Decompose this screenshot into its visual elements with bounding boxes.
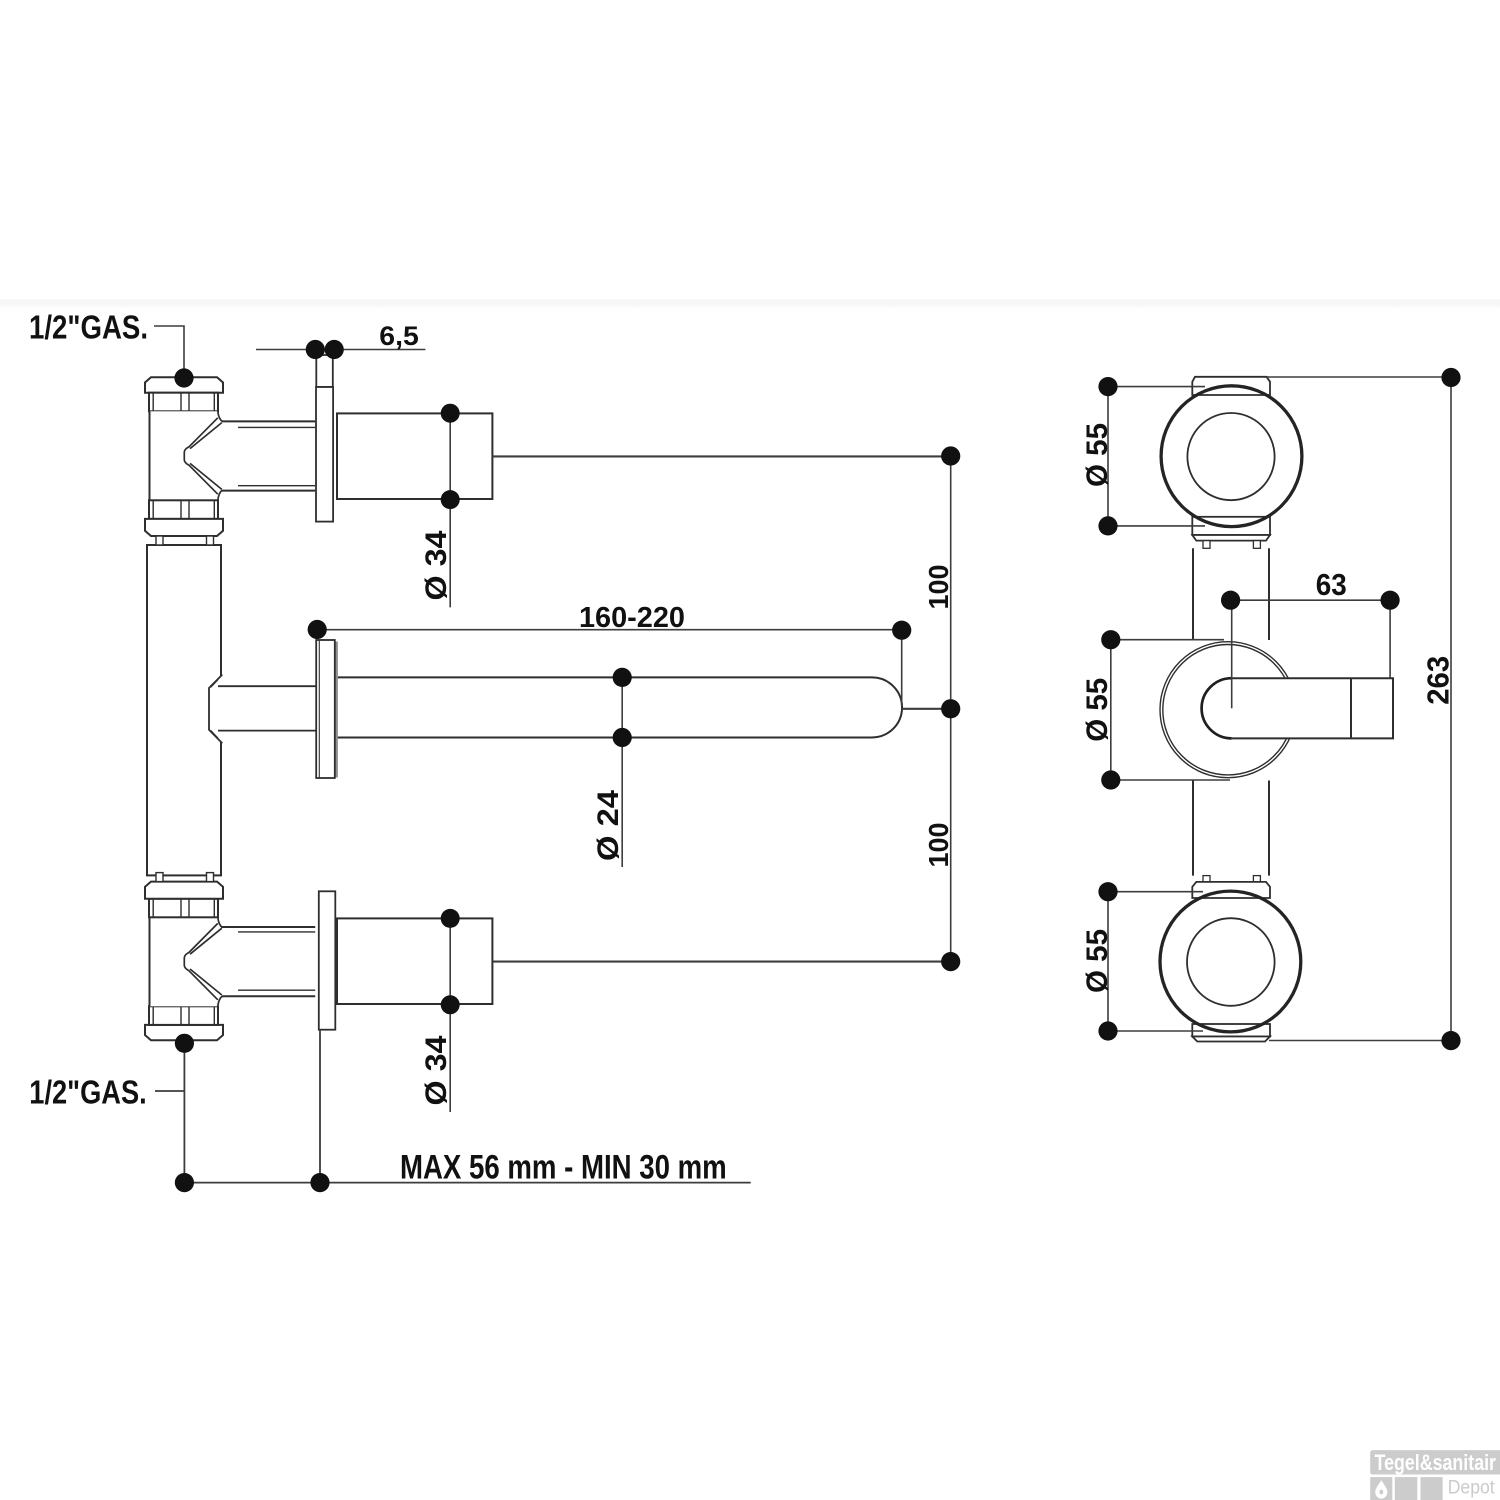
svg-text:63: 63 — [1316, 567, 1347, 602]
dim line 160-220 — [317, 630, 902, 706]
svg-text:1/2"GAS.: 1/2"GAS. — [29, 1074, 146, 1111]
handle knob K2 (bottom, front) — [1160, 891, 1301, 1032]
svg-text:Ø 24: Ø 24 — [592, 790, 625, 861]
valve V1 (top, hot supply) — [145, 377, 315, 545]
spout end cap divider — [1350, 678, 1352, 738]
dim 63 — [1231, 600, 1391, 678]
body column (front) — [1193, 548, 1269, 875]
spout shank — [218, 686, 316, 730]
dim D55 top — [1108, 387, 1205, 526]
svg-text:Ø 34: Ø 34 — [420, 530, 453, 600]
svg-text:Depot: Depot — [1448, 1477, 1496, 1498]
svg-text:160-220: 160-220 — [579, 602, 685, 634]
dim line D34 top — [449, 413, 451, 607]
handle H2 (bottom valve handle, side) — [337, 918, 492, 1004]
svg-text:1/2"GAS.: 1/2"GAS. — [29, 309, 148, 346]
middle spout escutcheon (front) — [1160, 642, 1296, 778]
spout centerline — [1231, 609, 1233, 708]
watermark box — [1370, 1450, 1500, 1474]
V2 internal cone — [184, 917, 222, 1006]
supply pipe — [147, 545, 221, 875]
plate tab below bottom handle — [1192, 1024, 1270, 1037]
V2 top cap nut — [145, 882, 223, 899]
V2 branch neck — [222, 927, 315, 996]
plate tab above bottom handle — [1192, 882, 1270, 898]
svg-text:Ø 34: Ø 34 — [420, 1035, 453, 1105]
bottom escutcheon plate tabs (front) — [1192, 876, 1270, 1042]
V2 body — [150, 917, 218, 1006]
node on V1 cap — [174, 368, 193, 387]
header separator band — [0, 300, 1500, 304]
svg-text:100: 100 — [923, 823, 954, 868]
V2 tail tabs — [156, 873, 163, 882]
V1 tail tabs — [156, 536, 163, 545]
svg-text:100: 100 — [923, 565, 954, 610]
spout wall flange — [336, 642, 338, 778]
spout back nut — [209, 674, 223, 743]
wall plate P2 (bottom valve escutcheon, side) — [319, 891, 336, 1029]
V2 lower hex ring — [149, 1006, 218, 1025]
dim line 100/100 — [950, 456, 952, 962]
handle H1 (top valve handle, side) — [337, 413, 492, 499]
V1 upper hex ring — [149, 393, 218, 412]
svg-text:6,5: 6,5 — [379, 321, 419, 351]
V2 bottom cap nut — [145, 1025, 223, 1040]
plate screws above bottom handle — [1203, 876, 1210, 882]
dim line D34 bottom — [449, 918, 451, 1112]
svg-text:263: 263 — [1421, 656, 1456, 705]
dim 263 — [1267, 377, 1451, 1041]
spout tube with rounded tip — [336, 677, 902, 737]
V1 branch neck — [222, 421, 315, 490]
svg-text:Ø 55: Ø 55 — [1081, 423, 1114, 487]
V1 top cap nut — [145, 377, 223, 392]
watermark droplet — [1375, 1480, 1387, 1498]
V1 bottom cap nut — [145, 519, 223, 536]
leader 1/2 GAS bottom + baseline MAX/MIN — [155, 1030, 751, 1183]
spout assembly (side view) — [209, 640, 902, 778]
V1 lower hex ring — [149, 500, 218, 519]
top escutcheon plate tabs (front) — [1192, 377, 1270, 549]
leader 1/2 GAS top — [154, 326, 184, 369]
svg-text:Ø 55: Ø 55 — [1081, 929, 1114, 993]
spout (front): tube pointing at viewer then right — [1202, 678, 1393, 738]
plate screws below top handle — [1203, 541, 1210, 549]
svg-text:Tegel&sanitair: Tegel&sanitair — [1375, 1450, 1497, 1475]
V1 internal cone — [184, 411, 222, 500]
dim D55 bottom — [1108, 892, 1203, 1031]
plate tab below top handle — [1192, 517, 1270, 535]
plate tab above top handle — [1192, 377, 1270, 395]
dim D55 middle — [1111, 640, 1230, 780]
wall plate P1 (top valve escutcheon, side) — [316, 355, 333, 522]
svg-text:MAX 56 mm - MIN 30 mm: MAX 56 mm - MIN 30 mm — [400, 1149, 727, 1187]
dim line D24 — [621, 677, 623, 867]
handle knob K1 (top, front) — [1161, 386, 1302, 527]
svg-text:Ø 55: Ø 55 — [1081, 678, 1114, 742]
valve V2 (bottom, cold supply - mirrored copy of V1) — [145, 873, 315, 1041]
watermark squares — [1370, 1477, 1392, 1500]
dim line 6,5 — [256, 349, 425, 351]
V1 body — [150, 411, 218, 500]
V2 upper hex ring — [149, 899, 218, 918]
